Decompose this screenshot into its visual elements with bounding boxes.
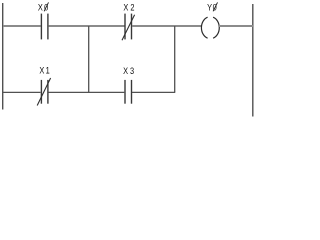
wire: top rung, X0 to X2	[48, 25, 124, 27]
wire: bottom rung, left rail to X1	[3, 91, 41, 93]
wire: top rung, X2 to coil Y0	[132, 25, 202, 27]
coil Y0	[201, 17, 219, 38]
left power rail	[2, 3, 4, 110]
contact X0 (normally open)	[41, 14, 48, 40]
wire: bottom rung, X3 to right branch connector	[132, 91, 175, 93]
branch junction wire: vertical connector at x=174.7 between rungs	[174, 26, 176, 92]
branch junction wire: vertical connector at x=88.7 between rungs	[88, 26, 90, 92]
contact X2 (normally closed)	[122, 14, 135, 41]
contact X3 (normally open)	[125, 80, 132, 104]
label X0 (slashed zero)	[38, 1, 50, 12]
wire: bottom rung, X1 to X3	[48, 91, 124, 93]
wire: top rung, coil Y0 to right rail	[219, 25, 253, 27]
svg-text:X3: X3	[123, 65, 136, 76]
contact X1 (normally closed)	[37, 78, 50, 106]
wire: top rung, left rail to X0	[3, 25, 41, 27]
svg-text:X1: X1	[39, 65, 51, 76]
label Y0 (slashed zero)	[207, 1, 217, 12]
svg-text:X2: X2	[123, 1, 136, 12]
svg-text:Y0: Y0	[207, 1, 217, 12]
right power rail	[252, 4, 254, 117]
